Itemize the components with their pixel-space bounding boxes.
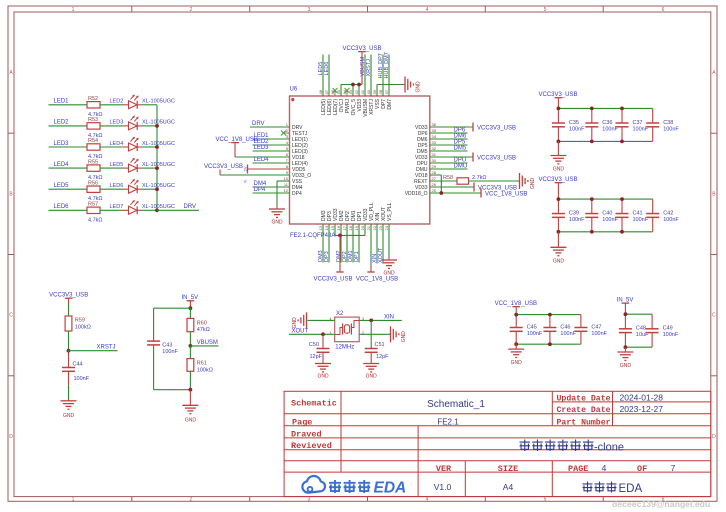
junction [590, 197, 594, 201]
junction [155, 208, 159, 212]
wire [189, 371, 191, 389]
wire [624, 347, 626, 352]
wire [235, 156, 290, 158]
svg-text:GND: GND [317, 374, 329, 380]
net label DM3 [318, 224, 324, 263]
svg-text:VCC3V3_USB: VCC3V3_USB [538, 92, 577, 98]
logo JLC EDA [302, 476, 406, 497]
svg-text:Schematic: Schematic [291, 399, 337, 409]
capacitor C48 10uF [619, 314, 649, 347]
pin 39 VSS [372, 89, 381, 109]
resistor R55 [87, 159, 103, 181]
svg-text:VCC_1V8_USB: VCC_1V8_USB [495, 301, 537, 307]
junction [620, 230, 624, 234]
svg-text:4: 4 [602, 463, 607, 473]
power flag IN_5V [617, 297, 634, 314]
capacitor C40 100nF [585, 199, 618, 232]
svg-text:SIZE: SIZE [498, 464, 518, 474]
LED diode LED2 XL-1005UGC [110, 95, 176, 109]
svg-text:LED3: LED3 [110, 120, 124, 126]
junction [155, 166, 159, 170]
junction [321, 332, 325, 336]
junction [351, 83, 355, 87]
power flag VCC_1V8_USB [495, 301, 537, 315]
pin 5 LED(3) [283, 146, 308, 155]
svg-text:LED4: LED4 [254, 157, 270, 163]
pin 25 VDD18_O [405, 188, 437, 197]
svg-text:2024-01-28: 2024-01-28 [620, 392, 664, 402]
junction [590, 140, 594, 144]
capacitor C51 12pF [365, 320, 389, 363]
svg-text:2: 2 [190, 7, 193, 13]
capacitor C47 100nF [574, 315, 607, 345]
power flag VCC3V3_USB [538, 92, 577, 109]
pin 11 DM4 [283, 182, 303, 191]
power flag VCC_1V8_USB pin 25 [430, 189, 528, 198]
junction [369, 319, 373, 323]
ground [61, 400, 77, 402]
crystal X2 12MHz [329, 311, 364, 350]
wire [625, 313, 652, 315]
pin 6 VD18 [283, 152, 305, 161]
resistor R60 47k [187, 318, 210, 333]
svg-text:EDA: EDA [619, 483, 643, 495]
svg-text:38: 38 [378, 89, 383, 94]
svg-text:C38: C38 [663, 120, 673, 126]
no-connect X pin 2 [281, 131, 286, 136]
svg-text:30: 30 [432, 158, 437, 163]
svg-text:LED6: LED6 [110, 183, 124, 189]
svg-text:32: 32 [432, 146, 437, 151]
svg-text:HUB_DM7: HUB_DM7 [384, 52, 390, 78]
svg-text:C41: C41 [633, 210, 643, 216]
svg-text:DRV: DRV [252, 121, 265, 127]
svg-text:GND: GND [401, 331, 407, 343]
svg-text:LED2: LED2 [54, 120, 70, 126]
svg-text:1: 1 [72, 7, 75, 13]
ground [182, 404, 198, 406]
no-connect X pin 46 [333, 88, 338, 93]
svg-text:C39: C39 [569, 210, 579, 216]
ground [508, 348, 524, 350]
pin 19 DP1 [354, 211, 363, 230]
svg-text:2.7kΩ: 2.7kΩ [472, 175, 487, 181]
svg-text:100nF: 100nF [560, 331, 576, 337]
net label DPU [430, 157, 468, 163]
pin 3 LED(1) [283, 134, 308, 143]
wire [142, 104, 158, 106]
svg-text:VCC3V3_USB: VCC3V3_USB [204, 164, 243, 170]
svg-text:XL-1005UGC: XL-1005UGC [142, 99, 175, 105]
wire [68, 331, 70, 351]
wire [142, 167, 158, 169]
svg-text:C44: C44 [73, 361, 83, 367]
svg-text:VS_PLL: VS_PLL [387, 202, 393, 221]
pin 20 VD33 [360, 208, 369, 230]
junction [590, 230, 594, 234]
svg-text:48: 48 [318, 89, 323, 94]
svg-text:10: 10 [284, 176, 289, 181]
power flag VCC3V3_USB top [342, 46, 381, 85]
svg-text:C42: C42 [663, 210, 673, 216]
net label DMU [430, 163, 468, 169]
wire [558, 231, 652, 233]
svg-text:VCC3V3_USB: VCC3V3_USB [477, 125, 516, 131]
wire pin 24 to ground [388, 224, 390, 260]
svg-text:GND: GND [292, 317, 298, 329]
svg-text:C35: C35 [569, 120, 579, 126]
svg-text:GND: GND [271, 220, 283, 226]
junction [189, 306, 193, 310]
pin 1 DRV [283, 122, 303, 131]
resistor R58 2.7k [430, 175, 520, 184]
svg-text:R61: R61 [197, 361, 207, 367]
svg-text:VBUSM: VBUSM [197, 340, 218, 346]
pin 34 DM6 [417, 134, 437, 143]
pin 31 VD33 [415, 152, 437, 161]
wire [558, 198, 652, 200]
wire [516, 314, 581, 316]
svg-text:40: 40 [366, 89, 371, 94]
junction [557, 230, 561, 234]
svg-text:GND: GND [620, 363, 632, 369]
net label DM5 [430, 145, 468, 151]
svg-text:C51: C51 [375, 342, 385, 348]
net label DP5 [430, 139, 468, 145]
junction [189, 388, 193, 392]
pin 10 VSS [283, 176, 303, 185]
wire [625, 346, 652, 348]
net label DP1 [354, 224, 360, 263]
svg-text:XRSTJ: XRSTJ [97, 345, 116, 351]
wire [557, 141, 559, 155]
pin 24 VS_PLL [384, 202, 393, 230]
power flag VCC3V3_USB [49, 292, 88, 303]
junction [155, 187, 159, 191]
svg-text:1: 1 [72, 497, 75, 503]
pin 2 TESTJ [283, 128, 308, 137]
svg-text:100kΩ: 100kΩ [75, 325, 91, 331]
pin 4 LED(2) [283, 140, 308, 149]
wire [219, 170, 221, 176]
svg-text:FE2.1: FE2.1 [437, 417, 459, 426]
junction [590, 107, 594, 111]
ground [404, 77, 406, 93]
svg-text:C45: C45 [527, 324, 537, 330]
svg-text:DRV: DRV [184, 204, 197, 210]
net label DP4 [253, 187, 290, 193]
wire [100, 104, 124, 106]
ground [381, 259, 397, 261]
power flag VCC3V3_USB bottom [313, 235, 352, 282]
svg-text:100nF: 100nF [663, 126, 679, 132]
ground [269, 208, 285, 210]
wire [515, 344, 517, 349]
wire [142, 209, 158, 211]
LED diode LED3 XL-1005UGC [110, 116, 176, 130]
svg-text:LED5: LED5 [54, 183, 70, 189]
net label DRV at pin 1 [250, 121, 290, 127]
pin 21 VD_PLL [366, 202, 375, 230]
svg-text:LED7: LED7 [110, 204, 124, 210]
svg-text:R58: R58 [443, 175, 453, 181]
junction [624, 312, 628, 316]
svg-text:33: 33 [432, 140, 437, 145]
junction [514, 342, 518, 346]
capacitor C44 100nF [62, 351, 90, 385]
svg-text:4.7kΩ: 4.7kΩ [88, 217, 103, 223]
svg-text:C46: C46 [560, 324, 570, 330]
svg-text:4: 4 [426, 497, 429, 503]
svg-text:DP3: DP3 [324, 251, 330, 262]
svg-text:XRSTJ: XRSTJ [366, 59, 372, 77]
svg-text:D: D [9, 434, 13, 440]
svg-text:GND: GND [553, 258, 565, 264]
svg-text:PAGE: PAGE [568, 464, 588, 474]
svg-text:12MHz: 12MHz [335, 344, 354, 350]
pin 27 REXT [414, 176, 437, 185]
pin 45 OVCJ [336, 89, 345, 112]
svg-text:EDA: EDA [374, 480, 407, 497]
svg-text:100nF: 100nF [569, 126, 585, 132]
svg-text:DP4: DP4 [292, 191, 302, 197]
net label LED4 [49, 162, 88, 168]
junction [624, 345, 628, 349]
resistor R54 [87, 138, 103, 160]
net label VBUSM [360, 55, 366, 97]
svg-text:2V: 2V [243, 166, 248, 171]
svg-text:V1.0: V1.0 [434, 482, 452, 492]
svg-text:C47: C47 [591, 324, 601, 330]
svg-text:36: 36 [432, 122, 437, 127]
wire VSS pin 39 to ground [377, 85, 405, 97]
wire [153, 308, 155, 339]
capacitor C37 100nF [616, 108, 649, 141]
wire [154, 389, 191, 391]
LED diode LED7 XL-1005UGC [110, 201, 176, 215]
pin 29 DMU [416, 164, 437, 173]
wire [557, 232, 559, 248]
wire [189, 332, 191, 346]
svg-text:37: 37 [384, 89, 389, 94]
pin 35 DP6 [418, 128, 437, 137]
svg-text:26: 26 [432, 182, 437, 187]
pin 8 VDD5 [283, 164, 306, 173]
svg-text:LED4: LED4 [110, 141, 124, 147]
svg-text:OF: OF [637, 464, 647, 474]
svg-text:XIN: XIN [384, 314, 394, 320]
svg-text:Part Number: Part Number [557, 417, 611, 427]
svg-text:LED3: LED3 [54, 141, 70, 147]
JLC EDA text cell [583, 482, 643, 496]
net label DM1 [348, 224, 354, 263]
power flag IN_5V [181, 295, 198, 308]
svg-text:LED5: LED5 [110, 162, 124, 168]
pin 41 VBUSM [360, 89, 369, 117]
LED diode LED4 XL-1005UGC [110, 137, 176, 151]
svg-text:41: 41 [360, 89, 365, 94]
net label XOUT [378, 224, 384, 264]
ground [390, 326, 392, 342]
pin 40 XRSTJ [366, 89, 375, 115]
LED diode LED5 XL-1005UGC [110, 159, 176, 173]
title block [284, 391, 711, 496]
svg-text:R59: R59 [75, 318, 85, 324]
pin 48 LED(5) [318, 89, 327, 115]
svg-text:LED1: LED1 [54, 99, 70, 105]
junction [155, 145, 159, 149]
svg-text:C: C [712, 313, 716, 319]
svg-text:GND: GND [383, 271, 395, 277]
net label LED6 [49, 204, 88, 210]
pin 18 DM1 [348, 210, 357, 230]
wire [248, 168, 290, 170]
svg-text:100nF: 100nF [162, 349, 178, 355]
wire [100, 125, 124, 127]
resistor R56 [87, 180, 103, 202]
net label LED1 [253, 133, 290, 139]
pin 37 DM7 [384, 89, 393, 109]
pin 26 VD33 [415, 182, 437, 191]
junction [439, 191, 443, 195]
svg-text:C: C [9, 313, 13, 319]
pin 47 LED(6) [324, 89, 333, 115]
power flag VCC3V3_USB at pins 8-9 [204, 164, 248, 183]
wire [516, 343, 581, 345]
ground [550, 155, 566, 157]
pin 42 VD33 [354, 89, 363, 111]
pin 7 LED(4) [283, 158, 308, 167]
capacitor C39 100nF [552, 199, 585, 232]
svg-text:DMU: DMU [454, 163, 468, 169]
svg-text:VCC_1V8_USB: VCC_1V8_USB [485, 191, 527, 197]
pin 22 XIN [372, 212, 381, 230]
svg-text:VCC3V3_USB: VCC3V3_USB [342, 46, 381, 52]
svg-text:100kΩ: 100kΩ [197, 367, 213, 373]
svg-text:35: 35 [432, 128, 437, 133]
svg-text:7: 7 [671, 463, 676, 473]
svg-text:5: 5 [544, 7, 547, 13]
net label XIN [359, 314, 402, 320]
pin 15 VD33 [330, 208, 339, 230]
junction [357, 83, 361, 87]
ground [363, 363, 379, 365]
svg-text:LED6: LED6 [324, 62, 330, 76]
wire VD33 bus pins 15,20 [335, 224, 365, 235]
wire [142, 125, 158, 127]
wire [142, 188, 158, 190]
junction [548, 342, 552, 346]
svg-text:Schematic_1: Schematic_1 [427, 399, 485, 410]
svg-text:R60: R60 [197, 320, 207, 326]
svg-text:12: 12 [284, 188, 289, 193]
junction [155, 124, 159, 128]
capacitor C50 12pF [309, 334, 330, 363]
svg-text:25: 25 [432, 188, 437, 193]
svg-text:IN_5V: IN_5V [181, 295, 198, 301]
wire [68, 303, 70, 316]
svg-text:100nF: 100nF [569, 217, 585, 223]
power flag VCC_1V8_USB bottom pin 21 [356, 224, 398, 283]
resistor R61 100k [187, 346, 213, 374]
svg-text:Draved: Draved [291, 429, 322, 439]
svg-text:GND: GND [366, 374, 378, 380]
svg-text:47: 47 [324, 89, 329, 94]
svg-text:U6: U6 [290, 87, 298, 93]
ground [617, 351, 633, 353]
pin 44 PWRJ [342, 89, 351, 113]
svg-text:100nF: 100nF [663, 217, 679, 223]
svg-text:N: N [243, 180, 248, 183]
svg-text:C43: C43 [162, 343, 172, 349]
junction [620, 140, 624, 144]
svg-text:C37: C37 [633, 120, 643, 126]
svg-text:LED3: LED3 [254, 145, 270, 151]
no-connect X pin 44 [345, 88, 350, 93]
net label LED2 [49, 120, 88, 126]
svg-text:GND: GND [185, 418, 197, 424]
svg-text:GND: GND [530, 178, 536, 190]
svg-text:LED2: LED2 [110, 99, 124, 105]
svg-text:VER: VER [436, 464, 452, 474]
junction [548, 313, 552, 317]
net label XOUT [289, 328, 335, 334]
resistor R59 100k [65, 316, 91, 331]
capacitor C46 100nF [543, 315, 576, 345]
capacitor C35 100nF [552, 108, 585, 141]
net label DM6 [430, 133, 468, 139]
ground [315, 363, 331, 365]
power flag VCC3V3_USB pin 36 [430, 123, 516, 132]
power flag VCC3V3_USB [538, 177, 577, 199]
net label VBUSM [190, 340, 218, 346]
net label LED5 [318, 55, 324, 97]
svg-text:100nF: 100nF [663, 332, 679, 338]
resistor R57 [87, 202, 103, 224]
wire [100, 209, 124, 211]
net label LED3 [49, 141, 88, 147]
svg-text:VCC3V3_USB: VCC3V3_USB [477, 155, 516, 161]
wire LED bus [156, 105, 158, 211]
pin 43 OVC_5 [348, 89, 357, 115]
svg-text:3: 3 [308, 497, 311, 503]
net label LED5 [49, 183, 88, 189]
net label LED3 [253, 145, 290, 151]
svg-text:34: 34 [432, 134, 437, 139]
svg-text:DP4: DP4 [254, 187, 266, 193]
svg-text:deceec139@hangel.edu: deceec139@hangel.edu [612, 499, 710, 509]
svg-text:29: 29 [432, 164, 437, 169]
wire [153, 348, 155, 390]
svg-text:5: 5 [544, 497, 547, 503]
svg-text:C36: C36 [602, 120, 612, 126]
wire [154, 307, 191, 309]
svg-text:2: 2 [190, 497, 193, 503]
svg-text:VCC_1V8_USB: VCC_1V8_USB [216, 137, 258, 143]
ground [550, 246, 566, 248]
svg-text:GND: GND [553, 167, 565, 173]
capacitor C43 100nF [147, 339, 178, 355]
pin 32 DM5 [417, 146, 437, 155]
svg-text:LED4: LED4 [54, 162, 70, 168]
wire VCC3V3 bus to pins 45,43,42 [341, 85, 362, 97]
capacitor C36 100nF [585, 108, 618, 141]
wire VSS pin 10 to ground [277, 181, 290, 209]
junction [620, 197, 624, 201]
pin 12 DP4 [283, 188, 302, 197]
svg-text:DM5: DM5 [454, 145, 467, 151]
junction [557, 140, 561, 144]
